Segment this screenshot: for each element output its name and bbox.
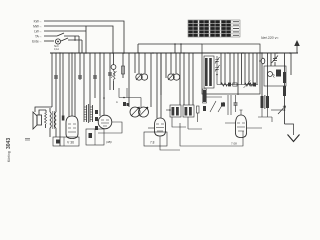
box V2 bbox=[86, 129, 104, 145]
rail drop x181 bbox=[180, 44, 182, 53]
wire drop x129 bbox=[128, 53, 130, 107]
wire drop x151 bbox=[150, 53, 152, 107]
switch arrow bbox=[278, 106, 286, 114]
wire L3 drop bbox=[85, 26, 87, 53]
wire drop x291 bbox=[290, 53, 292, 75]
switch S2 bbox=[61, 36, 82, 53]
wire drop x241.5 bbox=[241, 53, 243, 85]
svg-text:MW→: MW→ bbox=[33, 25, 42, 29]
trimmer pair B bbox=[168, 74, 174, 80]
top bus bbox=[50, 52, 298, 54]
wire drop x257 bbox=[256, 53, 258, 85]
output transformer bbox=[50, 112, 51, 128]
tube V4 top cap bbox=[240, 110, 243, 115]
lamp box bbox=[264, 66, 286, 86]
wires lower right bbox=[258, 108, 272, 122]
wire L2 bbox=[44, 26, 113, 53]
resistor row bbox=[217, 84, 258, 86]
capacitor C1 bbox=[78, 76, 82, 78]
wire L1 bbox=[44, 21, 124, 53]
wire drop x262 bbox=[261, 53, 263, 59]
wire L3 bbox=[44, 30, 86, 32]
field coil resistor bbox=[45, 113, 47, 124]
svg-text:LW→: LW→ bbox=[34, 30, 42, 34]
wire drop x69 bbox=[68, 53, 70, 117]
IFT box C bbox=[170, 105, 181, 117]
vertical wires from bus bbox=[51, 53, 53, 107]
small blobs column bbox=[95, 110, 98, 130]
wire drop x139 bbox=[138, 53, 140, 73]
wire drop x104 bbox=[103, 53, 105, 115]
comp at x123 bbox=[122, 53, 124, 78]
trimmer 1 in box A bbox=[215, 56, 220, 64]
wire drop x238 bbox=[237, 53, 239, 95]
switch contacts below box A bbox=[206, 96, 222, 98]
wire drop x166 bbox=[165, 53, 167, 78]
wire drop x63 bbox=[62, 53, 64, 120]
wire drop x193 bbox=[192, 53, 194, 105]
box around output stage bbox=[180, 123, 243, 146]
cap above tube V4 bbox=[234, 103, 238, 105]
svg-text:Erde→: Erde→ bbox=[32, 40, 42, 44]
wire drop x234 bbox=[233, 53, 235, 85]
wire drop x284.5 bbox=[284, 53, 286, 124]
wire drop x171 bbox=[170, 53, 172, 73]
capacitor C4 bbox=[108, 73, 112, 75]
trimmer 2 in box A bbox=[215, 64, 220, 72]
wire drop x249 bbox=[248, 53, 250, 85]
wire drop x189 bbox=[188, 53, 190, 105]
wire drop x161 bbox=[160, 53, 162, 95]
wire drop x271 bbox=[270, 53, 272, 66]
wire drop x72 bbox=[71, 53, 73, 116]
potentiometer at x113 bbox=[113, 53, 115, 65]
wire drop x275 bbox=[274, 53, 276, 58]
winding left edge boxA lower bbox=[203, 90, 206, 102]
mains arrow bbox=[296, 45, 298, 53]
big box A bbox=[202, 44, 260, 94]
svg-text:KW→: KW→ bbox=[34, 20, 42, 24]
svg-text:Körting: Körting bbox=[7, 151, 11, 162]
voltage table cell marks bbox=[188, 20, 239, 36]
svg-text:(3B): (3B) bbox=[106, 140, 112, 144]
power transformer windings bbox=[261, 96, 270, 108]
svg-text:Net 220 v≈: Net 220 v≈ bbox=[261, 36, 278, 40]
tube V2 circle bbox=[98, 115, 112, 129]
fuse oval right of box A bbox=[261, 58, 265, 64]
wire drop x75 bbox=[74, 53, 76, 117]
Körting 3043 vertical text bbox=[6, 138, 12, 162]
svg-text:V 36: V 36 bbox=[67, 141, 74, 145]
voltage table bbox=[188, 20, 240, 37]
tube V3 bbox=[155, 118, 166, 136]
IFT box D bbox=[183, 105, 194, 117]
junction dots on bus bbox=[59, 52, 291, 54]
rail drop x175 bbox=[174, 44, 176, 53]
tube V4 bbox=[236, 115, 247, 138]
wire drop x135 bbox=[134, 53, 136, 73]
tuning gang capacitors bbox=[130, 107, 140, 117]
wire drop x110 bbox=[109, 53, 111, 90]
mains run bbox=[285, 124, 294, 135]
trimmer pair A bbox=[136, 74, 142, 80]
wire drop x267.5 bbox=[267, 53, 269, 96]
wire drop x180 bbox=[179, 53, 181, 105]
svg-text:7.08: 7.08 bbox=[231, 142, 237, 146]
box V36 bbox=[53, 137, 79, 146]
wire drop x225 bbox=[224, 53, 226, 85]
wire drop x221 bbox=[220, 53, 222, 85]
wire drop x157 bbox=[156, 53, 158, 118]
svg-text:7.8: 7.8 bbox=[150, 141, 155, 145]
box V3 bbox=[144, 132, 167, 146]
wire drop x145 bbox=[144, 53, 146, 73]
wire drop x56 bbox=[55, 53, 57, 112]
svg-text:TA→: TA→ bbox=[35, 35, 42, 39]
switch S1 bbox=[44, 33, 79, 53]
wire drop x161 bbox=[160, 53, 162, 118]
small comp right of IFT bbox=[197, 106, 200, 113]
rail drop x138 bbox=[137, 44, 139, 53]
blobs near osc bbox=[123, 102, 129, 106]
wire drop x100 bbox=[99, 53, 101, 116]
capacitor C3 bbox=[93, 76, 97, 78]
variable cap right bbox=[272, 56, 279, 64]
tube V36 bbox=[66, 116, 78, 139]
wire drop x95 bbox=[94, 53, 96, 98]
capacitor C2 bbox=[54, 76, 58, 78]
svg-text:A: A bbox=[116, 100, 118, 104]
wire drop x60 bbox=[59, 53, 61, 146]
svg-text:0,1A: 0,1A bbox=[54, 48, 59, 51]
IF coil pair left bbox=[84, 104, 93, 123]
wire drop x80 bbox=[79, 53, 81, 80]
mains plug chevron bbox=[288, 135, 300, 142]
wire drop x90 bbox=[89, 53, 91, 105]
wire drop x253 bbox=[252, 53, 254, 85]
wire L5 bbox=[44, 40, 54, 42]
osc coil bracket bbox=[119, 88, 141, 107]
wire drop x230 bbox=[229, 53, 231, 85]
svg-text:3043: 3043 bbox=[6, 138, 12, 149]
IFT inside box A bbox=[204, 56, 214, 88]
wire drop x245 bbox=[244, 53, 246, 85]
rail y45 bbox=[138, 43, 202, 45]
leads below IFTs bbox=[172, 117, 202, 129]
wire drop x176 bbox=[175, 53, 177, 73]
wire drop x84 bbox=[83, 53, 85, 105]
speaker bbox=[33, 112, 37, 129]
wire drop x184 bbox=[183, 53, 185, 105]
fuse circle bbox=[55, 39, 60, 44]
